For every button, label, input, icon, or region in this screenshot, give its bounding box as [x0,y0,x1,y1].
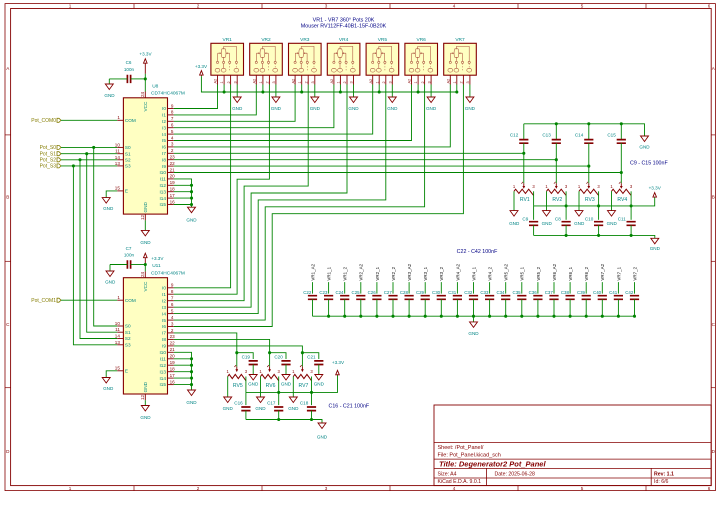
svg-text:16: 16 [170,199,176,204]
title block column dividers [486,468,488,485]
svg-text:RV6: RV6 [266,383,276,389]
U11 right pins I0-I15 [168,287,174,289]
wire C7 left [110,264,127,266]
svg-text:I11: I11 [160,177,167,182]
svg-text:2: 2 [197,4,200,9]
svg-text:14: 14 [115,155,121,160]
hier labels Pot_S0-S3 [57,145,61,149]
svg-text:VR5_A2: VR5_A2 [504,263,509,280]
svg-text:3: 3 [272,81,276,83]
wire VR7 pin1 to rail [456,85,458,93]
svg-text:C37: C37 [545,290,554,295]
wire VR4 A2 to U8 I3 [174,85,334,128]
U11 VCC pin 24 [144,271,146,277]
svg-text:I12: I12 [159,363,166,368]
potentiometer VR4 body [327,43,360,75]
svg-text:C34: C34 [496,290,505,295]
svg-text:C19: C19 [242,354,251,359]
svg-text:C26: C26 [368,290,377,295]
potentiometer VR7 body [444,43,477,75]
svg-text:1: 1 [117,115,120,120]
wire VR1 A2 to U8 I0 [174,85,218,109]
svg-text:I9: I9 [162,344,166,349]
svg-text:I5: I5 [162,318,166,323]
svg-text:S0: S0 [125,145,131,150]
svg-text:VR4: VR4 [339,37,349,43]
svg-text:9: 9 [171,103,174,108]
svg-text:I15: I15 [159,202,166,207]
svg-text:S3: S3 [125,342,131,347]
VR3 pin stubs [294,75,296,84]
svg-text:2: 2 [460,81,464,83]
svg-text:A2: A2 [330,79,334,84]
capacitor C40 net VR7_A2 [601,282,603,294]
svg-text:3: 3 [171,321,174,326]
svg-text:S1: S1 [125,151,131,156]
potentiometer VR3 body [289,43,322,75]
ground below U11 pin12 [144,400,146,405]
svg-text:GND: GND [426,106,437,111]
svg-text:GND: GND [103,386,114,391]
svg-text:VR1: VR1 [223,37,233,43]
svg-text:GND: GND [509,221,520,226]
svg-text:C24: C24 [335,290,344,295]
op-amp U8 CD74HC4067M body [123,98,167,214]
svg-text:Pot_S2: Pot_S2 [40,158,57,164]
svg-text:I13: I13 [159,189,166,194]
svg-text:GND: GND [232,106,243,111]
svg-text:A2: A2 [447,79,451,84]
ground VR6 pin3 [430,85,432,98]
capacitor C20 [270,353,286,359]
svg-text:Rev: 1.1: Rev: 1.1 [654,471,674,477]
RV7 terminal1 to ground [292,377,294,398]
svg-text:2: 2 [421,81,425,83]
wire VR7 pin2 staircase to U11 I6 [174,85,464,327]
wire U8 I10 to RV4 wiper [174,172,622,174]
svg-text:A2: A2 [291,79,295,84]
ground below bottom block [318,423,326,429]
svg-text:VR1_1: VR1_1 [327,266,332,280]
svg-text:GND: GND [143,201,148,212]
capacitor C34 net VR5_A2 [505,282,507,294]
wire C7 to U11 VCC [131,264,146,266]
ground VR1 pin3 [236,85,238,98]
capacitor C28 net VR3_A2 [408,282,410,294]
wire VR1 pin1 to rail [223,85,225,93]
svg-text:VCC: VCC [143,101,148,112]
wire C6 left [109,78,127,80]
svg-text:Mouser RV112FF-40B1-15F-0B20K: Mouser RV112FF-40B1-15F-0B20K [301,23,387,29]
wire bottom GND rail right block [534,235,655,238]
svg-text:VR7_A2: VR7_A2 [600,263,605,280]
U8 left pins S0-S3 [117,146,123,148]
capacitor C30 net VR3_2 [440,282,442,294]
U11 left pin E [117,370,123,372]
svg-text:S2: S2 [125,336,131,341]
ground at U11 E pin [106,371,117,378]
svg-text:3: 3 [311,81,315,83]
svg-text:+3.3V: +3.3V [139,51,152,56]
capacitor C29 net VR3_1 [424,282,426,294]
RV2 terminal 3 down [565,191,567,206]
svg-text:6: 6 [171,123,174,128]
svg-text:24: 24 [140,91,145,97]
svg-text:2: 2 [171,148,174,153]
svg-text:GND: GND [103,206,114,211]
svg-text:C22 - C42 100nF: C22 - C42 100nF [457,249,498,255]
svg-text:C22: C22 [303,290,312,295]
svg-text:VR3_1: VR3_1 [423,266,428,280]
svg-text:I14: I14 [159,196,166,201]
svg-text:2: 2 [227,81,231,83]
svg-text:VR6_A2: VR6_A2 [552,263,557,280]
wire VR3 A2 to U8 I2 [174,85,295,122]
wire C12 to wiper net [523,143,525,153]
svg-text:I5: I5 [162,138,166,143]
svg-text:GND: GND [186,217,197,222]
RV4 terminal 1 to ground [611,191,613,210]
svg-text:5: 5 [171,308,174,313]
svg-text:21: 21 [170,347,176,352]
capacitor C12 [523,124,525,140]
U8 GND pin 12 [144,214,146,220]
svg-text:GND: GND [607,221,618,226]
svg-text:1: 1 [375,81,379,83]
wire Pot_COM1 to U11 [61,299,117,301]
potentiometer RV6 [269,353,271,367]
svg-text:4: 4 [171,135,174,140]
potentiometer RV5 [236,353,238,367]
svg-text:I6: I6 [162,324,166,329]
wire VR6 A2 to U8 I5 [174,85,412,141]
capacitor C10 [598,206,600,220]
svg-text:VR2_1: VR2_1 [375,266,380,280]
svg-text:C30: C30 [432,290,441,295]
wire VR7 A2 to U8 I6 [174,85,451,147]
ground below C21 [318,365,320,375]
svg-text:6: 6 [171,302,174,307]
U11 unused inputs I10-I15 to ground [174,352,192,390]
power +3.3V above U11 [144,265,146,272]
capacitor C35 net VR5_1 [521,282,523,294]
capacitor C38 net VR6_1 [569,282,571,294]
svg-text:100n: 100n [124,253,135,258]
svg-text:3: 3 [466,81,470,83]
svg-text:C16: C16 [234,400,243,405]
svg-text:RV7: RV7 [298,383,308,389]
svg-text:11: 11 [115,327,120,332]
wires Pot_S to U8 [61,146,117,148]
svg-text:17: 17 [170,193,176,198]
svg-text:VR6_1: VR6_1 [568,266,573,280]
svg-text:GND: GND [465,106,476,111]
svg-text:14: 14 [115,334,121,339]
svg-text:GND: GND [281,382,292,387]
svg-text:3: 3 [350,81,354,83]
svg-text:4: 4 [171,315,174,320]
svg-text:S2: S2 [125,158,131,163]
svg-text:Pot_S3: Pot_S3 [40,164,57,170]
svg-text:C10: C10 [585,216,594,221]
svg-text:2: 2 [343,81,347,83]
svg-text:A2: A2 [369,79,373,84]
wire VR4 pin1 to rail [339,85,341,93]
capacitor C22 net VR1_A2 [312,282,314,294]
wire VR2 pin2 staircase to U11 I1 [174,85,270,295]
svg-text:I13: I13 [159,369,166,374]
wire VR5 pin1 to rail [378,85,380,93]
wire VR5 pin2 staircase to U11 I4 [174,85,386,314]
capacitor C14 [588,124,590,140]
RV4 terminal 3 down [630,191,632,206]
capacitor C39 net VR6_2 [585,282,587,294]
VR2 pin stubs [255,75,257,84]
svg-text:C11: C11 [618,216,627,221]
svg-text:I4: I4 [162,311,166,316]
svg-text:RV1: RV1 [520,197,530,203]
svg-text:GND: GND [387,106,398,111]
svg-text:VR3_A2: VR3_A2 [407,263,412,280]
capacitor C33 net VR4_2 [489,282,491,294]
svg-text:I6: I6 [162,145,166,150]
svg-text:GND: GND [348,106,359,111]
svg-text:Size: A4: Size: A4 [438,471,457,477]
capacitor C36 net VR5_2 [537,282,539,294]
svg-text:C31: C31 [448,290,457,295]
svg-text:A2: A2 [214,79,218,84]
svg-text:C40: C40 [593,290,602,295]
svg-text:VR6: VR6 [417,37,427,43]
svg-text:I7: I7 [162,331,166,336]
svg-text:C7: C7 [126,246,132,251]
wire U11 I8 to RV6 wiper [174,339,270,352]
svg-text:6: 6 [708,486,711,491]
svg-text:20: 20 [170,354,176,359]
svg-text:I3: I3 [162,125,166,130]
wire VR4 pin2 staircase to U11 I3 [174,85,347,308]
RV6 terminal3 down [278,377,280,393]
ground below right block [651,238,659,244]
capacitor C18 [311,392,313,405]
RV1 terminal 3 down [533,191,535,206]
RV1 terminal 1 to ground [513,191,515,210]
frame column ticks top/bottom [133,4,135,9]
svg-text:I10: I10 [159,170,166,175]
svg-text:13: 13 [115,161,121,166]
svg-text:I15: I15 [159,382,166,387]
svg-text:Title: Degenerator2 Pot_Panel: Title: Degenerator2 Pot_Panel [439,459,546,468]
svg-text:1: 1 [414,81,418,83]
svg-text:C35: C35 [513,290,522,295]
svg-text:22: 22 [170,341,176,346]
ground left of C6 [108,79,110,84]
svg-text:5: 5 [581,486,584,491]
svg-text:10: 10 [115,321,121,326]
svg-text:24: 24 [140,271,145,277]
ground VR2 pin3 [275,85,277,98]
svg-text:C9 - C15 100nF: C9 - C15 100nF [630,160,668,166]
svg-text:I8: I8 [162,337,166,342]
svg-text:C29: C29 [416,290,425,295]
ground VR3 pin3 [314,85,316,98]
svg-text:3: 3 [171,142,174,147]
svg-text:15: 15 [115,186,121,191]
RV6 terminal1 to ground [260,377,262,398]
svg-text:18: 18 [170,187,176,192]
potentiometer RV7 [301,353,303,367]
potentiometer RV1 [523,153,525,183]
wire bottom GND rail bottom block [246,420,322,424]
svg-text:S0: S0 [125,324,131,329]
svg-text:20: 20 [170,174,176,179]
svg-text:10: 10 [115,142,121,147]
svg-text:3: 3 [389,81,393,83]
svg-text:Sheet: /Pot_Panel/: Sheet: /Pot_Panel/ [438,445,484,451]
svg-text:5: 5 [581,4,584,9]
svg-text:Pot_S1: Pot_S1 [40,151,57,157]
RV2 terminal 1 to ground [546,191,548,210]
svg-text:GND: GND [248,382,259,387]
svg-text:16: 16 [170,379,176,384]
svg-text:2: 2 [382,81,386,83]
svg-text:VCC: VCC [143,281,148,292]
svg-text:23: 23 [170,155,176,160]
svg-text:4: 4 [453,4,456,9]
capacitor C24 net VR1_2 [344,282,346,294]
svg-text:I9: I9 [162,164,166,169]
power +3.3V VR rail flag [200,71,204,77]
svg-text:I10: I10 [159,350,166,355]
svg-text:VR2: VR2 [261,37,271,43]
svg-text:GND: GND [288,406,299,411]
VR6 pin stubs [411,75,413,84]
svg-text:C23: C23 [319,290,328,295]
svg-text:I11: I11 [160,356,167,361]
svg-text:GND: GND [105,280,116,285]
capacitor C19 [237,353,253,359]
potentiometer RV3 [588,166,590,183]
capacitor C11 [630,206,632,220]
svg-text:S3: S3 [125,164,131,169]
svg-text:RV5: RV5 [233,383,243,389]
U8 unused inputs I11-I15 to ground [174,179,192,207]
svg-text:GND: GND [639,144,650,149]
svg-text:VR1_2: VR1_2 [343,266,348,280]
svg-text:I4: I4 [162,132,166,137]
svg-text:VR4_1: VR4_1 [471,266,476,280]
svg-text:VR5_1: VR5_1 [520,266,525,280]
ground below C19 [252,365,254,375]
svg-text:3: 3 [325,4,328,9]
svg-text:COM: COM [125,118,136,123]
ground left of C7 [109,265,111,272]
U11 GND pin 12 [144,394,146,400]
svg-text:GND: GND [104,93,115,98]
svg-text:22: 22 [170,161,176,166]
capacitor C8 [565,206,567,220]
svg-text:C41: C41 [609,290,618,295]
svg-text:VR4_2: VR4_2 [488,266,493,280]
wire U8 I9 to RV3 wiper [174,165,589,167]
svg-text:1: 1 [117,295,120,300]
svg-text:GND: GND [143,381,148,392]
ground VR4 pin3 [353,85,355,98]
RV3 terminal 1 to ground [578,191,580,210]
wire +3.3V rail bottom block [246,376,338,393]
ground cap bank [473,316,475,322]
VR4 pin stubs [333,75,335,84]
VR1 pin stubs [217,75,219,84]
capacitor C17 [278,392,280,405]
svg-text:B: B [6,195,9,200]
wire C13 to wiper net [555,143,557,160]
wire Pot_COM0 to U8 [61,119,117,121]
wire VR3 pin2 staircase to U11 I2 [174,85,308,301]
RV3 terminal 3 down [598,191,600,206]
ground VR5 pin3 [391,85,393,98]
wire VR2 pin1 to rail [262,85,264,93]
capacitor C27 net VR2_2 [392,282,394,294]
potentiometer VR2 body [250,43,283,75]
svg-text:15: 15 [115,366,121,371]
hier label Pot_COM1 [57,298,61,302]
svg-text:12: 12 [140,214,145,220]
svg-text:12: 12 [140,394,145,400]
svg-text:VR2_2: VR2_2 [391,266,396,280]
wire GND rail cap bank [313,315,635,317]
svg-text:GND: GND [317,435,328,440]
svg-text:Pot_COM0: Pot_COM0 [31,118,56,124]
svg-text:C38: C38 [561,290,570,295]
wire U8 I8 to RV2 wiper [174,159,557,161]
svg-text:1: 1 [69,4,72,9]
svg-text:+3.3V: +3.3V [332,360,345,365]
capacitor C37 net VR6_A2 [553,282,555,294]
svg-text:GND: GND [140,415,151,420]
svg-text:C8: C8 [555,216,561,221]
capacitor C23 net VR1_1 [328,282,330,294]
ground below U8 pin12 [144,220,146,230]
svg-text:C12: C12 [510,133,519,138]
capacitor C32 net VR4_1 [473,282,475,294]
svg-text:File: Pot_Panel.kicad_sch: File: Pot_Panel.kicad_sch [438,452,501,458]
wire +3.3V rail right block [534,197,655,206]
capacitor C9 [533,206,535,220]
RV5 terminal3 down [245,377,247,393]
ground right of C12-C15 rail [641,136,649,142]
wire U11 I9 to RV7 wiper [174,346,303,353]
svg-text:GND: GND [271,106,282,111]
capacitor C42 net VR7_2 [634,282,636,294]
svg-text:8: 8 [171,110,174,115]
svg-text:1: 1 [259,81,263,83]
svg-text:VR2_A2: VR2_A2 [359,263,364,280]
svg-text:COM: COM [125,298,136,303]
svg-text:I7: I7 [162,151,166,156]
potentiometer RV2 [555,160,557,184]
ground VR7 pin3 [469,85,471,98]
svg-text:VR7: VR7 [455,37,465,43]
svg-text:I12: I12 [159,183,166,188]
svg-text:13: 13 [115,340,121,345]
svg-text:VR5: VR5 [378,37,388,43]
svg-text:GND: GND [542,221,553,226]
svg-text:2: 2 [266,81,270,83]
svg-text:CD74HC4067M: CD74HC4067M [151,270,185,276]
svg-text:C15: C15 [607,133,616,138]
svg-text:VR7_2: VR7_2 [632,266,637,280]
